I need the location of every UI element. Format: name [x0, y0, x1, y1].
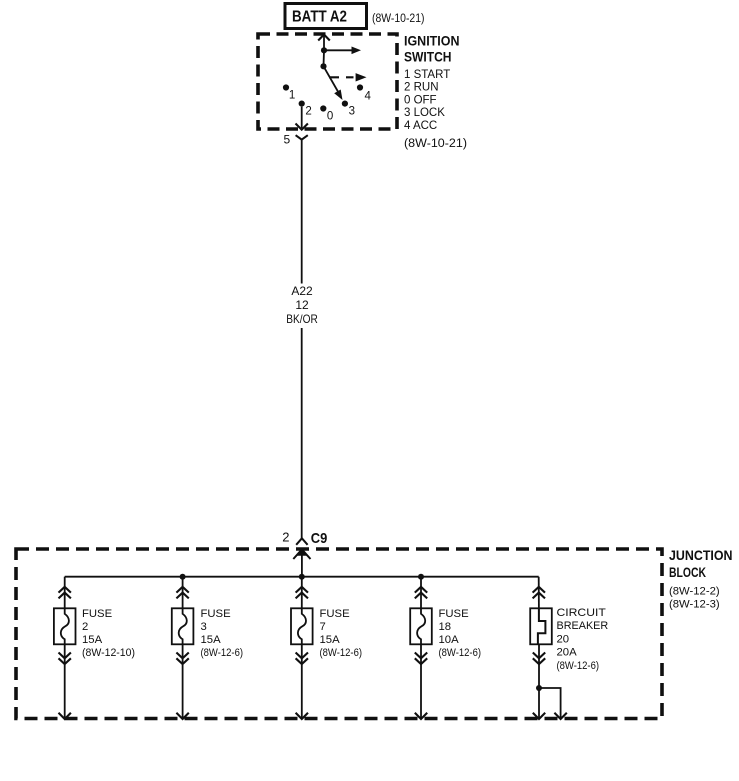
svg-text:15A: 15A — [201, 634, 222, 646]
svg-text:2: 2 — [82, 621, 88, 633]
svg-text:(8W-12-6): (8W-12-6) — [557, 660, 600, 672]
svg-text:20A: 20A — [557, 647, 578, 659]
svg-text:3: 3 — [201, 621, 207, 633]
svg-text:18: 18 — [439, 621, 452, 633]
svg-text:20: 20 — [557, 633, 570, 645]
svg-text:FUSE: FUSE — [439, 608, 470, 620]
svg-text:7: 7 — [320, 621, 326, 633]
svg-text:1 START: 1 START — [404, 69, 450, 81]
svg-text:FUSE: FUSE — [82, 608, 113, 620]
svg-text:(8W-12-3): (8W-12-3) — [669, 599, 720, 611]
svg-text:(8W-12-6): (8W-12-6) — [320, 647, 363, 659]
svg-text:15A: 15A — [320, 634, 341, 646]
svg-text:(8W-12-2): (8W-12-2) — [669, 586, 720, 598]
svg-text:(8W-10-21): (8W-10-21) — [404, 138, 467, 150]
svg-text:2 RUN: 2 RUN — [404, 82, 439, 94]
svg-text:IGNITION: IGNITION — [404, 34, 460, 49]
svg-text:A22: A22 — [291, 284, 313, 298]
svg-text:BATT A2: BATT A2 — [292, 9, 347, 26]
svg-text:(8W-12-10): (8W-12-10) — [82, 647, 135, 659]
svg-text:BREAKER: BREAKER — [557, 620, 609, 632]
svg-text:10A: 10A — [439, 634, 460, 646]
svg-text:4: 4 — [365, 91, 372, 103]
svg-text:3: 3 — [349, 106, 355, 118]
svg-text:15A: 15A — [82, 634, 103, 646]
svg-text:0 OFF: 0 OFF — [404, 94, 437, 106]
svg-text:SWITCH: SWITCH — [404, 50, 452, 65]
svg-text:2: 2 — [282, 530, 289, 545]
svg-text:2: 2 — [305, 106, 311, 118]
svg-text:1: 1 — [289, 90, 295, 102]
svg-text:BLOCK: BLOCK — [669, 565, 706, 580]
svg-text:5: 5 — [284, 133, 291, 147]
svg-text:C9: C9 — [311, 530, 328, 547]
svg-text:(8W-12-6): (8W-12-6) — [201, 647, 244, 659]
svg-text:4 ACC: 4 ACC — [404, 120, 437, 132]
svg-text:(8W-12-6): (8W-12-6) — [439, 647, 482, 659]
svg-text:BK/OR: BK/OR — [286, 312, 318, 326]
svg-text:FUSE: FUSE — [320, 608, 351, 620]
svg-text:FUSE: FUSE — [201, 608, 232, 620]
svg-text:CIRCUIT: CIRCUIT — [557, 607, 606, 619]
svg-text:12: 12 — [295, 298, 309, 312]
svg-text:0: 0 — [327, 111, 333, 123]
svg-text:(8W-10-21): (8W-10-21) — [372, 13, 425, 25]
svg-text:JUNCTION: JUNCTION — [669, 548, 733, 563]
svg-text:3 LOCK: 3 LOCK — [404, 107, 445, 119]
